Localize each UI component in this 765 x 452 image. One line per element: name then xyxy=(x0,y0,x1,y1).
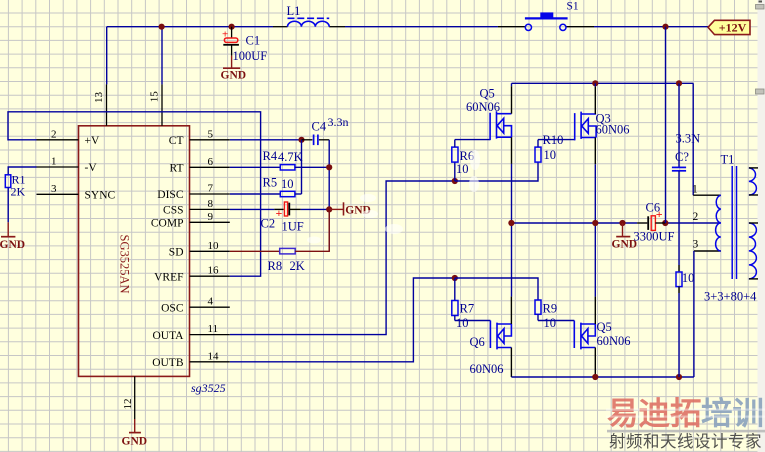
pin 2 (+V) xyxy=(37,139,79,141)
svg-text:15: 15 xyxy=(148,91,160,103)
resistor R6 10 xyxy=(452,140,474,181)
svg-text:GND: GND xyxy=(122,435,148,447)
transistor Q6 (bottom left) xyxy=(455,297,512,377)
svg-text:-V: -V xyxy=(85,162,98,174)
svg-text:VREF: VREF xyxy=(154,271,183,283)
node bottom rail snubber junction xyxy=(676,374,682,380)
scrollbar strip xyxy=(758,0,765,452)
svg-text:SG3525AN: SG3525AN xyxy=(117,235,131,294)
wire OUTA to R6/R10 xyxy=(230,181,455,335)
svg-text:10: 10 xyxy=(682,271,695,285)
svg-text:易迪拓: 易迪拓 xyxy=(607,396,702,431)
node mid right junction xyxy=(592,220,598,226)
svg-text:R8: R8 xyxy=(268,259,283,273)
node RT junction xyxy=(326,164,332,170)
pin 10 (SD) xyxy=(190,250,230,252)
svg-text:8: 8 xyxy=(208,198,214,210)
svg-text:3: 3 xyxy=(51,183,57,195)
node mid left junction xyxy=(508,220,514,226)
pin 14 (OUTB) xyxy=(190,361,230,363)
svg-text:Q5: Q5 xyxy=(597,320,612,334)
node Q3 drain junction xyxy=(592,80,598,86)
svg-text:射频和天线设计专家: 射频和天线设计专家 xyxy=(609,432,762,451)
svg-text:R5: R5 xyxy=(263,176,278,190)
wire C6 to +12V vertical xyxy=(665,27,667,223)
wire CSS row xyxy=(230,208,274,210)
svg-text:7: 7 xyxy=(208,183,214,195)
op-amp/IC U1 SG3525AN body xyxy=(79,126,190,377)
svg-text:+12V: +12V xyxy=(719,21,747,35)
resistor R5 10 xyxy=(230,176,302,197)
svg-text:3.3n: 3.3n xyxy=(328,115,349,129)
ground GND below R1 xyxy=(0,222,25,251)
svg-text:L1: L1 xyxy=(287,4,301,18)
svg-text:3+3+80+4: 3+3+80+4 xyxy=(704,289,757,303)
pin 9 (COMP) xyxy=(190,221,230,223)
svg-text:2: 2 xyxy=(693,211,699,223)
pin 12 xyxy=(134,376,136,419)
svg-text:2: 2 xyxy=(51,128,57,140)
capacitor C1 100UF xyxy=(222,27,267,63)
svg-text:RT: RT xyxy=(169,163,183,175)
ground GND right of C2 xyxy=(329,202,371,216)
svg-text:CT: CT xyxy=(169,135,184,147)
svg-text:3: 3 xyxy=(693,239,699,251)
pin 6 (RT) xyxy=(190,166,230,168)
svg-text:16: 16 xyxy=(208,265,220,277)
wire +12V rail (top) xyxy=(107,26,273,28)
wire pin13 drop xyxy=(106,27,108,85)
svg-text:10: 10 xyxy=(456,316,469,330)
svg-text:11: 11 xyxy=(208,323,219,335)
svg-text:60N06: 60N06 xyxy=(470,362,504,376)
svg-text:10: 10 xyxy=(208,240,220,252)
transistor Q5 (top left) xyxy=(455,83,512,164)
wire top drain rail xyxy=(512,82,694,84)
wire SD row to R8 xyxy=(230,250,280,252)
svg-text:12: 12 xyxy=(122,399,134,410)
resistor R7 10 xyxy=(452,278,474,330)
node CSS junction xyxy=(326,206,332,212)
svg-text:100UF: 100UF xyxy=(233,49,268,63)
svg-text:GND: GND xyxy=(221,70,247,82)
inductor L1 xyxy=(287,4,330,27)
watermark logo text xyxy=(606,396,765,451)
node GND stub junction xyxy=(619,220,625,226)
svg-text:CSS: CSS xyxy=(163,205,183,217)
node C? top junction xyxy=(676,80,682,86)
svg-text:OUTB: OUTB xyxy=(152,357,184,369)
wire pin15 drop xyxy=(161,27,163,85)
svg-text:1UF: 1UF xyxy=(282,220,304,234)
wire R8 to CSS junction xyxy=(295,209,329,251)
pin 4 (OSC) xyxy=(190,306,230,308)
node OUTA/R6 junction xyxy=(452,178,458,184)
capacitor C2 1UF xyxy=(261,202,304,234)
switch S1 xyxy=(525,0,579,30)
svg-text:3300UF: 3300UF xyxy=(634,229,675,243)
pin 16 (VREF) xyxy=(190,275,230,277)
wire R4 vertical link xyxy=(301,140,303,194)
svg-text:60N06: 60N06 xyxy=(597,334,631,348)
svg-text:2K: 2K xyxy=(11,185,26,199)
svg-text:C1: C1 xyxy=(246,34,261,48)
svg-text:2K: 2K xyxy=(290,259,305,273)
pin 11 (OUTA) xyxy=(190,334,230,336)
svg-text:60N06: 60N06 xyxy=(466,100,500,114)
wire to R9 top xyxy=(455,278,538,300)
pin 5 (CT) xyxy=(190,139,230,141)
svg-text:Q5: Q5 xyxy=(480,87,495,101)
svg-text:14: 14 xyxy=(208,350,220,362)
svg-text:C2: C2 xyxy=(261,217,276,231)
svg-text:10: 10 xyxy=(544,148,557,162)
power port +12V xyxy=(708,20,750,34)
svg-text:5: 5 xyxy=(208,128,214,140)
svg-text:10: 10 xyxy=(281,177,294,191)
svg-text:C?: C? xyxy=(675,150,689,164)
node CT junction xyxy=(298,137,304,143)
svg-text:R9: R9 xyxy=(543,302,558,316)
svg-text:+: + xyxy=(276,206,283,220)
wire bridge midpoint to T1 pin2 xyxy=(511,222,637,224)
wire right bridge mid vertical xyxy=(594,164,596,296)
resistor R9 10 xyxy=(535,300,557,330)
svg-text:S1: S1 xyxy=(567,0,579,12)
wire C4 right vertical xyxy=(328,140,330,252)
svg-text:OUTA: OUTA xyxy=(152,330,184,342)
wire CT row xyxy=(230,139,302,141)
node junction pin15/+12V xyxy=(159,24,165,30)
decorative white smudges (ignore) xyxy=(307,150,480,244)
svg-text:4: 4 xyxy=(208,296,214,308)
svg-text:SYNC: SYNC xyxy=(85,190,116,202)
svg-text:R4: R4 xyxy=(263,149,278,163)
node junction C1/+12V xyxy=(229,24,235,30)
resistor R1 2K xyxy=(5,175,11,188)
svg-text:10: 10 xyxy=(456,162,469,176)
svg-text:+: + xyxy=(222,28,228,40)
svg-text:T1: T1 xyxy=(721,152,735,166)
pin 7 (DISC) xyxy=(190,193,230,195)
capacitor C4 3.3n xyxy=(302,115,349,145)
wire -V to R1 xyxy=(8,167,36,175)
svg-text:OSC: OSC xyxy=(161,302,184,314)
svg-text:C6: C6 xyxy=(646,201,661,215)
node junction C6-vertical/+12V xyxy=(662,24,668,30)
svg-text:6: 6 xyxy=(208,156,214,168)
resistor R8 2K xyxy=(280,248,296,254)
pin 1 (-V) xyxy=(37,166,79,168)
pin 15 xyxy=(161,84,163,125)
svg-text:9: 9 xyxy=(208,211,214,223)
resistor 10 (snubber) xyxy=(676,265,694,377)
node C6 plus junction xyxy=(662,220,668,226)
wire R1 to ground xyxy=(7,188,9,223)
pin 3 (SYNC) xyxy=(37,193,79,195)
wire OUTB to R7/R9 xyxy=(230,278,455,362)
wire left bridge mid vertical xyxy=(511,164,513,297)
svg-text:1: 1 xyxy=(692,184,698,196)
svg-text:C4: C4 xyxy=(312,120,327,134)
wire bottom source rail xyxy=(511,376,694,378)
svg-text:+V: +V xyxy=(85,135,100,147)
transformer T1 xyxy=(692,83,758,377)
svg-text:4.7K: 4.7K xyxy=(278,150,303,164)
capacitor C6 3300UF xyxy=(634,201,675,244)
svg-text:10: 10 xyxy=(544,316,557,330)
wire to R10 bottom xyxy=(455,162,538,181)
pin 8 (CSS) xyxy=(190,208,230,210)
svg-text:3.3N: 3.3N xyxy=(676,132,701,146)
ground GND below pin 12 xyxy=(122,419,148,447)
svg-text:13: 13 xyxy=(93,92,105,104)
node bottom rail Q5 junction xyxy=(592,374,598,380)
wire +V to VREF net xyxy=(8,112,261,276)
svg-text:60N06: 60N06 xyxy=(596,122,630,136)
svg-text:GND: GND xyxy=(0,239,25,251)
ground GND below C1 xyxy=(221,56,247,82)
resistor R10 10 xyxy=(535,133,563,162)
ground GND below mid wire xyxy=(612,223,638,251)
node OUTB/R7 junction xyxy=(452,275,458,281)
svg-text:R7: R7 xyxy=(460,302,475,316)
svg-text:DISC: DISC xyxy=(157,189,184,201)
wire C2 to junction xyxy=(301,208,330,210)
svg-text:COMP: COMP xyxy=(151,218,184,230)
pin 13 xyxy=(106,84,108,125)
transistor Q3 (top right) xyxy=(538,83,630,164)
svg-text:SD: SD xyxy=(169,247,184,259)
svg-text:Q6: Q6 xyxy=(470,335,485,349)
svg-text:sg3525: sg3525 xyxy=(191,381,226,395)
svg-text:培训: 培训 xyxy=(701,396,764,431)
svg-text:1: 1 xyxy=(51,156,57,168)
resistor R4 4.7K xyxy=(230,149,329,170)
transistor Q5 (bottom right) xyxy=(538,297,631,375)
capacitor C? 3.3N xyxy=(672,83,700,265)
